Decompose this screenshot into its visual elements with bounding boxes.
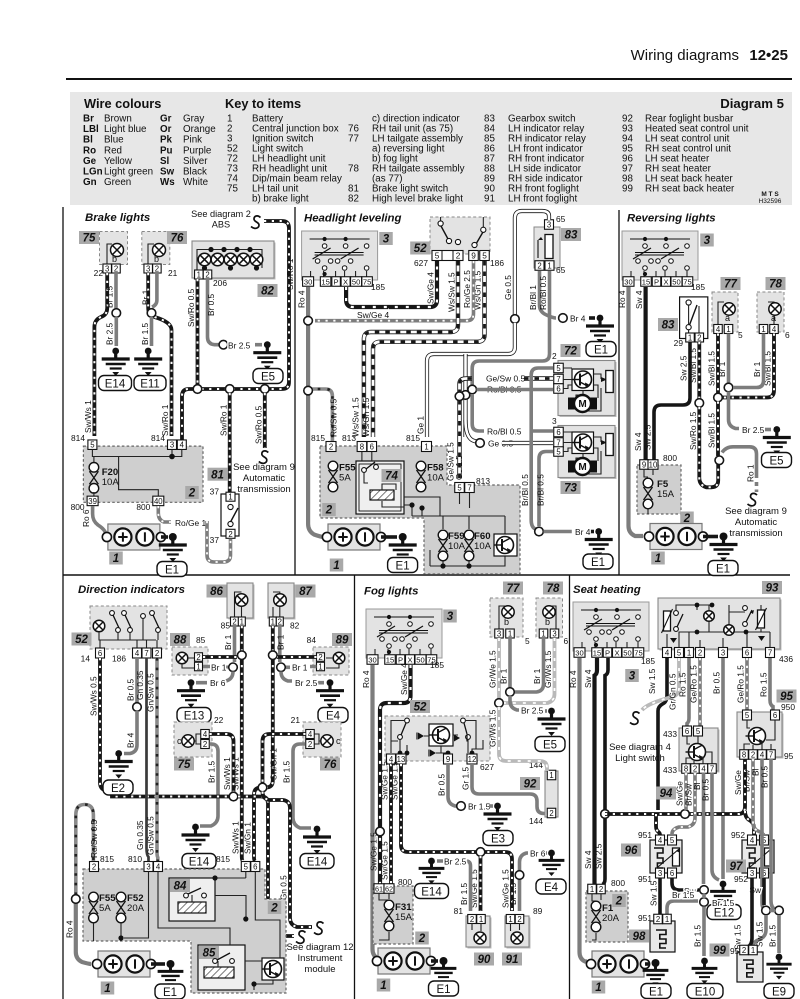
ignition switch 3 xyxy=(366,609,442,658)
svg-text:74: 74 xyxy=(385,471,398,483)
svg-text:5: 5 xyxy=(696,727,701,736)
wire BrSw-97 xyxy=(753,759,764,836)
ignition switch 3 xyxy=(622,231,698,280)
svg-text:Sw/Ws 1: Sw/Ws 1 xyxy=(230,821,240,854)
svg-text:1: 1 xyxy=(318,663,322,672)
wire GrGn05 xyxy=(642,658,679,710)
wire int82 xyxy=(197,250,262,273)
svg-text:15: 15 xyxy=(593,649,601,658)
wire int73a xyxy=(563,432,601,474)
svg-text:85: 85 xyxy=(196,635,206,645)
wire int89 xyxy=(326,658,339,668)
svg-text:Br 1.5: Br 1.5 xyxy=(768,924,778,947)
svg-text:5: 5 xyxy=(670,836,675,845)
wire RoBl05-73 xyxy=(472,394,484,431)
wire BrBl05-72 xyxy=(531,368,553,529)
svg-text:2: 2 xyxy=(537,262,541,271)
svg-text:84: 84 xyxy=(174,881,187,893)
svg-text:6: 6 xyxy=(370,443,374,452)
RH seat control unit 95 xyxy=(739,714,784,759)
ignition switch 3 xyxy=(302,231,378,280)
wire Sw25-s xyxy=(603,658,609,885)
svg-text:91: 91 xyxy=(506,954,519,966)
fuse F55 5A xyxy=(89,892,99,902)
svg-text:Brake lights: Brake lights xyxy=(85,212,150,224)
fuse F1 20A xyxy=(591,901,601,911)
svg-text:3: 3 xyxy=(447,611,454,623)
svg-text:Br 2.5: Br 2.5 xyxy=(295,678,318,688)
svg-text:E10: E10 xyxy=(695,986,715,998)
svg-text:3: 3 xyxy=(146,265,150,274)
svg-text:800: 800 xyxy=(611,878,625,888)
fuse F52 20A xyxy=(116,892,126,902)
wire Br15-75d xyxy=(200,744,218,826)
battery 1 xyxy=(592,951,644,977)
svg-text:5: 5 xyxy=(556,364,561,373)
svg-text:Sl: Sl xyxy=(160,156,170,167)
svg-text:Ro 1.5: Ro 1.5 xyxy=(759,672,769,697)
wire SwRo05-82 xyxy=(196,279,200,389)
wire Br25-f xyxy=(510,696,519,710)
svg-text:3: 3 xyxy=(497,630,501,639)
svg-text:29: 29 xyxy=(674,338,684,348)
wire int87 xyxy=(273,592,280,618)
svg-text:5: 5 xyxy=(677,649,682,658)
svg-text:X: X xyxy=(407,656,412,665)
svg-text:1: 1 xyxy=(197,271,201,280)
svg-text:20A: 20A xyxy=(127,903,145,914)
svg-text:39: 39 xyxy=(88,497,97,506)
svg-text:5: 5 xyxy=(482,251,487,261)
svg-text:65: 65 xyxy=(556,214,566,224)
wire Br-E12 xyxy=(721,658,725,879)
svg-text:952: 952 xyxy=(731,830,745,840)
svg-text:7: 7 xyxy=(144,649,148,658)
svg-text:99: 99 xyxy=(622,184,633,195)
wire intf xyxy=(404,493,505,566)
svg-text:3: 3 xyxy=(105,265,109,274)
wire Br1-88 xyxy=(203,665,228,669)
svg-text:Ro 4: Ro 4 xyxy=(617,290,627,308)
svg-text:20A: 20A xyxy=(602,913,620,924)
svg-text:Ro 4: Ro 4 xyxy=(65,920,75,938)
svg-text:See diagram 9: See diagram 9 xyxy=(725,506,787,517)
svg-text:Br 1.5: Br 1.5 xyxy=(468,802,491,812)
RH seat heater 97 xyxy=(742,840,774,873)
wire Sw4-s xyxy=(595,658,598,884)
wire Ro15-94 xyxy=(687,658,689,726)
svg-text:Seat heating: Seat heating xyxy=(573,584,641,596)
svg-text:X: X xyxy=(614,649,619,658)
wire intf5 xyxy=(644,469,653,514)
svg-text:a: a xyxy=(725,313,730,323)
svg-text:b: b xyxy=(504,617,509,627)
svg-text:Br 2.5: Br 2.5 xyxy=(444,857,467,867)
svg-text:See diagram 2: See diagram 2 xyxy=(191,209,251,219)
wire WsGn15 xyxy=(373,261,485,437)
wire Br25-r xyxy=(729,392,740,429)
wire BrBl05-73 xyxy=(539,452,553,527)
wire Br4b xyxy=(544,530,572,534)
headlight unit 73 xyxy=(560,427,617,479)
wire bat4-e1 xyxy=(151,962,165,966)
wire f20b xyxy=(93,492,95,496)
svg-text:9: 9 xyxy=(642,461,646,470)
svg-text:7: 7 xyxy=(769,751,773,760)
wire GeSw05 xyxy=(460,379,473,479)
svg-text:Light green: Light green xyxy=(104,167,153,178)
svg-text:module: module xyxy=(304,964,335,975)
wire int83 xyxy=(689,305,699,333)
wire Sw-96 xyxy=(672,878,699,890)
fog light 77 xyxy=(490,598,523,637)
wire Ge05-73 xyxy=(466,420,478,442)
wire GeRo15-94 xyxy=(698,658,702,726)
svg-text:61: 61 xyxy=(375,885,383,894)
svg-text:30: 30 xyxy=(304,278,312,287)
tail unit 75 xyxy=(174,722,212,757)
svg-text:2: 2 xyxy=(92,863,96,872)
svg-text:5: 5 xyxy=(745,711,750,720)
svg-text:Br 1.5: Br 1.5 xyxy=(712,898,735,908)
wire Sw15-97 xyxy=(744,878,752,948)
svg-text:10A: 10A xyxy=(448,541,466,552)
svg-text:X: X xyxy=(343,278,348,287)
svg-text:E4: E4 xyxy=(326,710,341,722)
svg-text:Sw/Ro 0.5: Sw/Ro 0.5 xyxy=(254,405,264,444)
svg-text:92: 92 xyxy=(524,779,537,791)
battery 1 xyxy=(108,524,160,550)
svg-text:Sw 4: Sw 4 xyxy=(634,290,644,309)
svg-text:4: 4 xyxy=(658,836,663,845)
wire SwBl15-77 xyxy=(716,334,720,395)
svg-text:186: 186 xyxy=(490,258,504,268)
svg-text:2: 2 xyxy=(742,946,746,955)
svg-text:1: 1 xyxy=(228,493,232,502)
svg-text:1: 1 xyxy=(547,262,551,271)
svg-text:7: 7 xyxy=(467,484,471,493)
battery 1 xyxy=(650,524,702,550)
svg-text:Sw/Bl 1.5: Sw/Bl 1.5 xyxy=(707,413,717,448)
svg-text:4: 4 xyxy=(750,836,755,845)
svg-text:Sw: Sw xyxy=(160,167,175,178)
wire Br1-87 xyxy=(278,626,282,662)
svg-text:2: 2 xyxy=(456,251,461,261)
svg-text:Gn/Sw 0.5: Gn/Sw 0.5 xyxy=(146,816,156,855)
wire Br05-9 xyxy=(448,764,457,806)
svg-text:Br 1: Br 1 xyxy=(752,361,762,377)
svg-text:White: White xyxy=(183,177,209,188)
svg-text:LGn: LGn xyxy=(83,167,103,178)
svg-text:82: 82 xyxy=(348,194,359,205)
svg-text:1: 1 xyxy=(113,553,119,565)
svg-text:Br 0.5: Br 0.5 xyxy=(701,778,711,801)
svg-text:627: 627 xyxy=(480,762,494,772)
wire Gr15 xyxy=(472,764,546,814)
svg-text:E14: E14 xyxy=(105,378,126,390)
svg-text:65: 65 xyxy=(556,265,566,275)
svg-text:Br 0.5: Br 0.5 xyxy=(206,293,216,316)
battery 1 xyxy=(328,524,380,550)
svg-text:Sw/Gn 1: Sw/Gn 1 xyxy=(243,822,253,854)
svg-text:91: 91 xyxy=(484,194,495,205)
svg-text:E11: E11 xyxy=(140,378,160,390)
svg-text:E5: E5 xyxy=(769,455,783,467)
svg-text:78: 78 xyxy=(348,164,359,175)
svg-text:Sw/Ro 1: Sw/Ro 1 xyxy=(285,258,295,290)
wire int86 xyxy=(235,592,242,618)
RH tail unit 76 xyxy=(142,232,170,265)
svg-text:Br 2.5: Br 2.5 xyxy=(105,322,115,345)
battery 1 xyxy=(378,948,430,974)
svg-text:5: 5 xyxy=(244,863,249,872)
svg-text:22: 22 xyxy=(94,268,104,278)
svg-text:Br 4: Br 4 xyxy=(126,732,136,748)
svg-text:Wiring diagrams: Wiring diagrams xyxy=(631,47,739,64)
svg-text:Sw 4: Sw 4 xyxy=(583,669,593,688)
svg-text:Sw 2.5: Sw 2.5 xyxy=(679,355,689,381)
fuse F58 10A xyxy=(416,461,426,471)
svg-text:7: 7 xyxy=(710,765,714,774)
svg-text:Br 1: Br 1 xyxy=(276,634,286,650)
wire Br1-89 xyxy=(286,665,317,669)
wire RoGe25 xyxy=(315,261,474,321)
wire GrWs15-92 xyxy=(499,707,547,771)
svg-text:E14: E14 xyxy=(189,856,210,868)
svg-text:Automatic: Automatic xyxy=(735,517,777,528)
svg-text:M T S: M T S xyxy=(761,191,779,198)
wire SwGe15-90 xyxy=(479,856,483,911)
svg-text:E1: E1 xyxy=(716,563,730,575)
svg-text:c: c xyxy=(177,736,182,746)
RH seat back heater 99 xyxy=(737,952,763,982)
wire int90 xyxy=(472,923,481,931)
wire Br1-78f xyxy=(515,638,544,692)
wire SwRo05-d9 xyxy=(263,393,267,448)
svg-text:Sw/Ws 0.5: Sw/Ws 0.5 xyxy=(89,676,99,716)
rear foglight busbar 92 xyxy=(545,771,558,817)
svg-text:Reversing lights: Reversing lights xyxy=(627,213,716,225)
fog light 78 xyxy=(536,598,563,637)
tail unit 76 xyxy=(303,722,341,757)
light switch 52 xyxy=(430,217,490,254)
svg-text:77: 77 xyxy=(348,134,359,145)
wire SwRo1-abs xyxy=(182,221,289,440)
svg-text:3: 3 xyxy=(721,649,725,658)
svg-text:2: 2 xyxy=(615,896,623,908)
svg-text:Sw/Bl 1.5: Sw/Bl 1.5 xyxy=(707,351,717,386)
junction box 2 xyxy=(637,465,681,514)
svg-text:2: 2 xyxy=(278,618,282,627)
svg-text:Ro 4: Ro 4 xyxy=(361,670,371,688)
svg-text:Br 0.5: Br 0.5 xyxy=(126,678,136,701)
svg-text:15: 15 xyxy=(321,278,329,287)
ground E1 xyxy=(399,533,407,541)
wire Br4-E2 xyxy=(124,711,137,754)
svg-text:73: 73 xyxy=(564,483,577,495)
wire SwWs-88 xyxy=(203,655,237,659)
svg-text:Gn/Sw 0.5: Gn/Sw 0.5 xyxy=(146,673,156,712)
svg-text:E1: E1 xyxy=(436,984,450,996)
wire bus-s xyxy=(605,759,745,814)
svg-text:Br 1.5: Br 1.5 xyxy=(672,890,695,900)
svg-text:Sw 1.5: Sw 1.5 xyxy=(647,668,657,694)
wire br25-e14 xyxy=(437,861,471,911)
svg-text:1: 1 xyxy=(508,915,512,924)
svg-text:37: 37 xyxy=(210,487,220,497)
svg-text:2: 2 xyxy=(228,530,232,539)
svg-text:Pu: Pu xyxy=(160,145,173,156)
wire Ge05 xyxy=(515,211,549,315)
svg-text:5: 5 xyxy=(90,441,95,450)
svg-text:815: 815 xyxy=(406,433,420,443)
svg-text:LBl: LBl xyxy=(83,124,99,135)
svg-text:7: 7 xyxy=(556,439,560,448)
svg-text:951: 951 xyxy=(638,830,652,840)
svg-text:Ro 6: Ro 6 xyxy=(81,509,91,527)
svg-text:2: 2 xyxy=(155,265,159,274)
ground E1 xyxy=(652,959,660,967)
wire Br25-89 xyxy=(281,672,324,683)
svg-text:Orange: Orange xyxy=(183,124,216,135)
svg-text:Fog lights: Fog lights xyxy=(364,586,418,598)
wire Br05-94 xyxy=(712,773,719,880)
wire SwBl15-dn xyxy=(716,402,720,457)
svg-text:Silver: Silver xyxy=(183,156,208,167)
wire SwGe-94 xyxy=(684,773,688,810)
svg-text:2: 2 xyxy=(470,915,474,924)
svg-text:22: 22 xyxy=(214,715,224,725)
svg-text:82: 82 xyxy=(261,286,274,298)
svg-text:Sw/Ro 1: Sw/Ro 1 xyxy=(160,404,170,436)
svg-text:144: 144 xyxy=(529,816,543,826)
svg-text:40: 40 xyxy=(154,497,163,506)
svg-text:89: 89 xyxy=(336,635,349,647)
wire Br25-r2 xyxy=(765,428,771,432)
wire Br15-98 xyxy=(667,901,698,914)
svg-text:7: 7 xyxy=(768,649,772,658)
svg-text:Sw 4: Sw 4 xyxy=(633,432,643,451)
svg-text:Ge/Ro 1.5: Ge/Ro 1.5 xyxy=(689,665,699,703)
svg-text:814: 814 xyxy=(71,433,85,443)
svg-text:Br 0.5: Br 0.5 xyxy=(712,671,722,694)
svg-text:RH seat back heater: RH seat back heater xyxy=(645,184,735,195)
wire SwWs1-75 xyxy=(210,734,234,792)
wire intf31 xyxy=(379,893,389,940)
svg-text:H32596: H32596 xyxy=(759,198,782,205)
wire br6-e4 xyxy=(520,853,529,911)
wire GeRo15-95 xyxy=(745,658,749,710)
svg-text:Sw/Ge 1.5: Sw/Ge 1.5 xyxy=(380,841,390,880)
svg-text:Bl: Bl xyxy=(83,135,93,146)
svg-text:Ro/Bl 0.5: Ro/Bl 0.5 xyxy=(487,427,522,437)
svg-text:1: 1 xyxy=(688,334,692,343)
svg-text:Brown: Brown xyxy=(104,114,132,125)
svg-text:Ws/Gn 1.5: Ws/Gn 1.5 xyxy=(361,397,371,437)
wire RoBl05-73b xyxy=(530,429,553,433)
wire bat-e1 xyxy=(161,535,168,539)
svg-text:See diagram 12: See diagram 12 xyxy=(286,942,353,953)
svg-text:82: 82 xyxy=(290,621,300,631)
svg-text:2: 2 xyxy=(196,653,200,662)
svg-text:7: 7 xyxy=(556,375,560,384)
svg-text:Sw/Gn 1: Sw/Gn 1 xyxy=(268,748,278,780)
front indicator 87 xyxy=(270,585,296,620)
svg-text:Ro 1: Ro 1 xyxy=(746,464,756,482)
wire Ge05-73b xyxy=(502,441,553,445)
svg-text:Br 1.5: Br 1.5 xyxy=(459,882,469,905)
svg-text:52: 52 xyxy=(414,243,427,255)
svg-text:206: 206 xyxy=(213,278,227,288)
svg-text:1: 1 xyxy=(240,618,244,627)
svg-text:627: 627 xyxy=(414,258,428,268)
svg-text:800: 800 xyxy=(663,453,677,463)
wire int75 xyxy=(107,244,112,266)
svg-text:78: 78 xyxy=(547,583,560,595)
svg-text:Sw/Bl 1.5: Sw/Bl 1.5 xyxy=(688,348,698,383)
wire Gn035 xyxy=(147,658,149,862)
svg-text:Pink: Pink xyxy=(183,135,202,146)
svg-text:Ro: Ro xyxy=(83,145,96,156)
svg-text:Gn: Gn xyxy=(83,177,97,188)
svg-text:Purple: Purple xyxy=(183,145,212,156)
svg-text:transmission: transmission xyxy=(237,484,290,495)
wire bat5-e1 xyxy=(431,959,438,963)
svg-text:2: 2 xyxy=(188,488,196,500)
svg-text:30: 30 xyxy=(368,656,376,665)
fuse F60 10A xyxy=(464,530,474,540)
wire int75d xyxy=(190,734,201,744)
svg-text:Gr: Gr xyxy=(160,114,172,125)
ground E1 xyxy=(169,533,177,541)
svg-text:815: 815 xyxy=(216,854,230,864)
side indicator 88 xyxy=(172,647,208,675)
svg-text:E1: E1 xyxy=(649,986,663,998)
svg-text:93: 93 xyxy=(766,583,779,595)
svg-text:Automatic: Automatic xyxy=(243,473,285,484)
high level brake light 82 xyxy=(194,243,276,280)
svg-text:Black: Black xyxy=(183,167,207,178)
wire Br05-52 xyxy=(135,658,139,703)
svg-text:Ge/Sw 0.5: Ge/Sw 0.5 xyxy=(486,374,525,384)
wire Ro1b xyxy=(755,482,759,492)
wire int52f xyxy=(391,721,483,754)
svg-text:96: 96 xyxy=(625,845,638,857)
wire Ro4-f xyxy=(373,665,385,961)
wire Br4-e1 xyxy=(589,316,595,320)
svg-text:Ro/Ge 1: Ro/Ge 1 xyxy=(175,518,207,528)
svg-text:815: 815 xyxy=(100,854,114,864)
wire Br15-E10 xyxy=(702,894,706,956)
svg-text:2: 2 xyxy=(114,265,118,274)
svg-text:E14: E14 xyxy=(307,856,328,868)
svg-text:Ro/Sw 0.5: Ro/Sw 0.5 xyxy=(329,398,339,437)
wire SwGe15-4 xyxy=(389,764,393,884)
junction box 2 xyxy=(586,891,628,942)
front foglight 91 xyxy=(507,918,531,949)
svg-text:E1: E1 xyxy=(165,564,179,576)
svg-text:10: 10 xyxy=(649,461,658,470)
fuse F20 10A xyxy=(89,463,99,473)
wire int93 xyxy=(667,605,770,649)
tail unit 77 xyxy=(712,292,738,332)
svg-text:Br 1: Br 1 xyxy=(499,668,509,684)
svg-text:3: 3 xyxy=(750,869,754,878)
svg-text:Pk: Pk xyxy=(160,135,173,146)
svg-text:6: 6 xyxy=(564,636,569,646)
wire int52d xyxy=(99,619,158,648)
wire Br6-88 xyxy=(196,672,233,683)
